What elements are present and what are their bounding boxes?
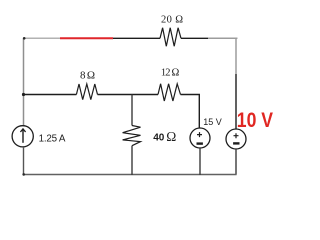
resistor R2 8 Ohm (middle left) — [76, 84, 97, 100]
V2 minus terminal — [233, 142, 239, 144]
wire: bottom rail — [24, 174, 237, 176]
wire: middle rail left into R2 — [24, 94, 77, 96]
junction node at left middle — [22, 93, 25, 96]
wire: I1 bottom to bottom rail — [23, 147, 25, 175]
resistor R1 20 Ohm (top) — [160, 28, 181, 47]
wire: center branch down to R4 — [131, 95, 133, 126]
V2 plus terminal — [234, 133, 239, 138]
V1 plus terminal — [197, 132, 202, 137]
wire: right side upper gray — [235, 38, 237, 74]
wire: R4 to bottom rail — [131, 146, 133, 175]
wire: top segment into R1 — [113, 37, 160, 39]
wire: center junction to R3 — [132, 94, 158, 96]
wire: R2 to center junction — [98, 94, 133, 96]
voltage source V2 circle (10 V) — [226, 129, 246, 149]
svg-text:12 Ω: 12 Ω — [161, 67, 180, 78]
wire: R3 to corner above V1 — [181, 95, 200, 129]
wire: V2 bottom to bottom rail — [235, 149, 237, 175]
voltage source V1 circle (15 V) — [190, 128, 210, 148]
svg-text:40: 40 — [153, 132, 165, 143]
wire: R1 to top-right corner — [181, 37, 208, 39]
V1 minus terminal — [197, 142, 203, 144]
svg-text:20 Ω: 20 Ω — [161, 15, 183, 26]
wire: left side upper — [23, 38, 25, 126]
I1 arrow (up) — [22, 130, 24, 143]
resistor R4 40 Ohm (vertical) — [123, 126, 141, 146]
svg-text:10 V: 10 V — [237, 108, 274, 132]
I1 arrowhead — [20, 129, 25, 132]
resistor R3 12 Ohm (middle right) — [158, 84, 181, 101]
wire: top highlighted red segment — [60, 37, 113, 39]
svg-text:Ω: Ω — [166, 129, 176, 144]
junction dot bottom-left corner — [22, 173, 25, 176]
junction dot top-left corner — [23, 37, 26, 40]
wire: right side into V2 — [235, 74, 237, 129]
wire: top-left gray segment — [24, 37, 60, 39]
wire: top-right gray segment — [208, 37, 237, 40]
svg-text:8 Ω: 8 Ω — [80, 69, 95, 81]
svg-text:1.25 A: 1.25 A — [39, 134, 66, 145]
current source I1 circle — [12, 126, 33, 147]
svg-text:15 V: 15 V — [203, 117, 222, 127]
wire: V1 bottom to bottom rail — [199, 148, 201, 175]
